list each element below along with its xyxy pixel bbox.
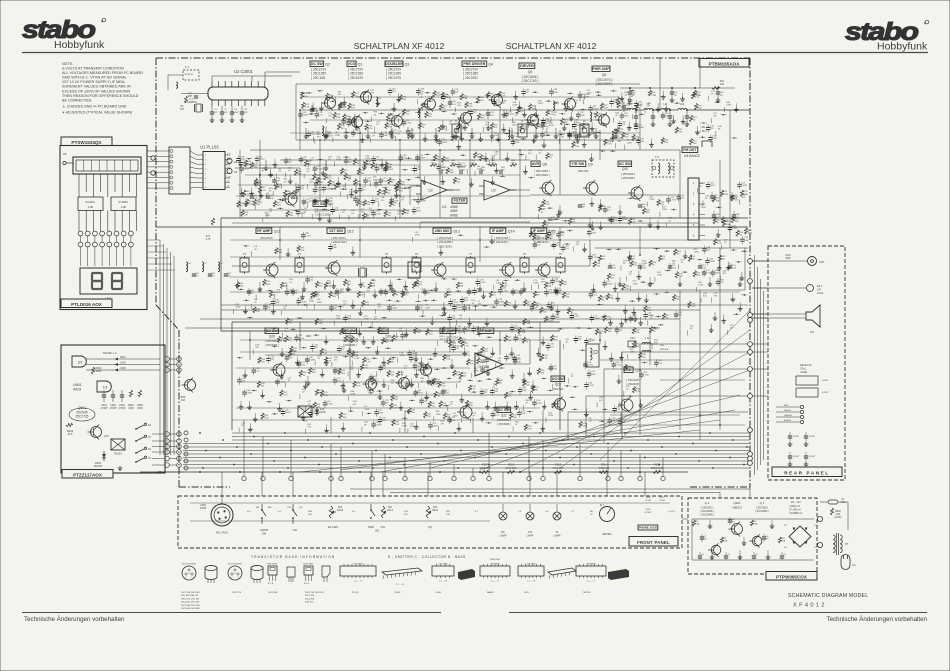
label box PTSW1534QX xyxy=(61,137,112,146)
resistor array R-ARAY right xyxy=(111,197,136,211)
svg-text:1/2W: 1/2W xyxy=(354,358,359,360)
svg-text:1/2W: 1/2W xyxy=(633,283,638,285)
svg-text:22P: 22P xyxy=(457,329,461,331)
psu wires xyxy=(692,519,814,560)
svg-text:0.01: 0.01 xyxy=(466,308,471,310)
svg-text:C203: C203 xyxy=(645,497,651,499)
svg-text:C208: C208 xyxy=(200,505,206,507)
svg-text:47K: 47K xyxy=(520,111,524,113)
svg-text:2SC1359 2SC2002: 2SC1359 2SC2002 xyxy=(181,592,201,594)
svg-text:100P: 100P xyxy=(328,136,333,138)
main schematic border (dash-dot) xyxy=(156,58,750,487)
svg-text:4.7/25: 4.7/25 xyxy=(375,213,382,215)
transformer T2 xyxy=(518,120,527,137)
svg-text:56K: 56K xyxy=(419,284,423,286)
block label 1ST MIX Q12 xyxy=(327,228,354,244)
svg-text:1K: 1K xyxy=(288,340,291,342)
selective-call unit PTZZ outer box xyxy=(61,345,165,473)
L11 L12 filter xyxy=(628,337,669,352)
svg-text:1.8K: 1.8K xyxy=(121,205,127,209)
filler cluster AF mid2 xyxy=(362,341,469,430)
svg-text:10K: 10K xyxy=(361,173,365,175)
svg-text:47A: 47A xyxy=(327,285,331,288)
svg-text:R88: R88 xyxy=(547,283,552,285)
svg-text:1000P: 1000P xyxy=(456,307,463,309)
switch PWR + pot VOL VR1 xyxy=(368,504,394,533)
svg-text:4.7K: 4.7K xyxy=(607,144,612,146)
svg-text:Q13: Q13 xyxy=(453,230,460,234)
svg-text:.02: .02 xyxy=(420,381,424,383)
output filter L7-L10 xyxy=(608,102,750,127)
svg-text:56K: 56K xyxy=(498,383,502,385)
svg-text:L-7: L-7 xyxy=(571,511,575,513)
svg-text:4.7K: 4.7K xyxy=(548,321,553,323)
svg-text:( 2SC1846 ): ( 2SC1846 ) xyxy=(755,509,769,513)
rails y305-328 xyxy=(185,305,748,328)
svg-text:1P: 1P xyxy=(196,276,199,278)
wires main to rear panel xyxy=(752,261,768,396)
bridge rectifier D1-D4 xyxy=(784,525,818,549)
bus left connector circles xyxy=(184,431,188,470)
op-amp U3a xyxy=(416,180,453,200)
svg-text:.02: .02 xyxy=(540,212,544,214)
block label DRIVER Q5 xyxy=(519,63,538,83)
label box PTLD016AOX xyxy=(61,299,112,308)
svg-text:C23: C23 xyxy=(211,273,216,275)
svg-text:1/2W: 1/2W xyxy=(701,207,706,209)
svg-text:4700P: 4700P xyxy=(793,436,799,438)
svg-text:2SC1760 2SC1974: 2SC1760 2SC1974 xyxy=(305,592,325,594)
svg-text:R10: R10 xyxy=(601,256,606,258)
svg-text:220: 220 xyxy=(244,215,248,217)
svg-text:4.7/25: 4.7/25 xyxy=(496,102,503,104)
svg-text:C406: C406 xyxy=(120,367,126,370)
svg-text:4.7K: 4.7K xyxy=(549,114,554,116)
svg-text:1/2W: 1/2W xyxy=(726,105,731,107)
footer rule right xyxy=(509,612,927,614)
psu filler parts xyxy=(692,517,785,546)
svg-text:2P: 2P xyxy=(469,167,472,169)
svg-text:47A: 47A xyxy=(239,285,243,288)
diagonal wires to front panel xyxy=(300,310,750,472)
svg-text:10K: 10K xyxy=(625,288,629,290)
svg-text:1/2W: 1/2W xyxy=(496,381,501,383)
svg-text:10K: 10K xyxy=(446,514,450,516)
svg-text:220: 220 xyxy=(387,215,391,217)
package BA403 DIP xyxy=(480,559,510,583)
svg-text:4.7K: 4.7K xyxy=(368,128,373,130)
T9 transformer xyxy=(652,155,674,177)
svg-text:( 25C1675: ( 25C1675 xyxy=(348,76,363,80)
svg-text:2P: 2P xyxy=(398,134,401,136)
svg-text:100P: 100P xyxy=(326,188,331,190)
svg-text:1/2W: 1/2W xyxy=(494,135,499,137)
svg-text:56K: 56K xyxy=(426,369,430,371)
svg-text:100P: 100P xyxy=(712,138,717,140)
svg-text:470: 470 xyxy=(731,522,735,524)
package 4558 black xyxy=(458,569,475,580)
svg-text:R20: R20 xyxy=(304,93,309,95)
svg-text:CR1: CR1 xyxy=(630,337,635,340)
svg-text:BOTTOM VIEW: BOTTOM VIEW xyxy=(182,564,196,566)
svg-text:Q28: Q28 xyxy=(269,335,275,339)
label box PTPW005COX xyxy=(766,572,817,581)
svg-text:MIC JACK: MIC JACK xyxy=(216,531,228,535)
svg-text:.02: .02 xyxy=(373,114,377,116)
svg-text:4.7/25: 4.7/25 xyxy=(588,385,595,387)
rear panel caps xyxy=(788,432,816,467)
svg-text:47A: 47A xyxy=(452,345,456,348)
svg-text:2P: 2P xyxy=(284,308,287,310)
transistor Q10 xyxy=(628,185,643,201)
transistor Q11 xyxy=(263,262,278,278)
wires to 7-seg display xyxy=(81,247,131,266)
svg-text:4.7K: 4.7K xyxy=(695,97,700,99)
svg-text:6: 6 xyxy=(205,178,207,180)
transistor Q301 psu xyxy=(729,522,743,537)
svg-text:0.01: 0.01 xyxy=(300,188,305,190)
svg-text:Q12: Q12 xyxy=(347,230,354,234)
svg-text:Q3: Q3 xyxy=(405,63,410,67)
svg-text:2SC1675 2SC 945: 2SC1675 2SC 945 xyxy=(181,598,200,600)
svg-text:1000P: 1000P xyxy=(391,308,398,310)
svg-text:1/2W: 1/2W xyxy=(436,414,441,416)
svg-text:10K: 10K xyxy=(549,238,553,240)
svg-text:FM: FM xyxy=(256,507,259,509)
svg-text:470: 470 xyxy=(703,295,707,297)
svg-text:10K: 10K xyxy=(456,374,460,376)
svg-text:0.01: 0.01 xyxy=(640,141,645,143)
svg-text:470: 470 xyxy=(353,404,357,406)
svg-text:.02: .02 xyxy=(495,154,499,156)
svg-text:1: 1 xyxy=(205,155,207,157)
svg-text:MA150 x 3: MA150 x 3 xyxy=(103,351,117,355)
svg-text:56K: 56K xyxy=(289,215,293,217)
svg-text:470: 470 xyxy=(309,182,313,184)
svg-text:CALL: CALL xyxy=(800,367,807,371)
svg-text:Δ VOLTS AT TRANSMIT CONDITION: Δ VOLTS AT TRANSMIT CONDITION xyxy=(62,67,124,71)
svg-text:C42: C42 xyxy=(673,92,678,94)
svg-text:2P: 2P xyxy=(711,93,714,95)
svg-text:1.8A: 1.8A xyxy=(651,94,656,97)
svg-text:1.2A: 1.2A xyxy=(723,540,728,543)
power supply Q2 label xyxy=(700,501,714,517)
pot SQ VR3 xyxy=(426,506,438,529)
svg-text:C129: C129 xyxy=(552,366,558,368)
svg-text:100P: 100P xyxy=(345,122,350,124)
transistor Q15 xyxy=(535,262,550,278)
svg-text:10K: 10K xyxy=(563,284,567,286)
svg-text:L-5: L-5 xyxy=(518,511,522,513)
svg-text:4.7/25: 4.7/25 xyxy=(730,268,737,270)
svg-text:0.01: 0.01 xyxy=(593,294,598,296)
package TA7205 black xyxy=(608,569,629,580)
svg-text:C64: C64 xyxy=(581,204,586,206)
svg-text:D2: D2 xyxy=(784,525,788,527)
svg-text:1000P: 1000P xyxy=(592,108,599,110)
svg-text:U3: U3 xyxy=(442,205,446,209)
svg-text:C610: C610 xyxy=(641,204,647,206)
svg-text:R104: R104 xyxy=(327,358,333,360)
svg-text:56K: 56K xyxy=(375,383,379,385)
svg-text:100P: 100P xyxy=(515,142,520,144)
svg-text:E: E xyxy=(231,577,233,579)
svg-text:220: 220 xyxy=(347,178,351,180)
svg-text:1/2W: 1/2W xyxy=(257,202,262,204)
connector circles display rows xyxy=(78,231,133,247)
svg-text:2P: 2P xyxy=(705,198,708,200)
svg-text:1 2 — #8: 1 2 — #8 xyxy=(439,581,448,583)
svg-text:4700P: 4700P xyxy=(200,508,207,510)
svg-text:22P: 22P xyxy=(622,124,626,126)
svg-text:4.7/25: 4.7/25 xyxy=(587,365,594,367)
block label FM DET U4 BA403 xyxy=(682,147,700,158)
filler cluster TX chain upper xyxy=(298,88,643,144)
svg-text:56K: 56K xyxy=(293,351,297,353)
svg-text:4.7/25: 4.7/25 xyxy=(508,114,515,116)
svg-text:4.7K: 4.7K xyxy=(399,191,404,193)
svg-text:1/2: 1/2 xyxy=(491,189,496,193)
svg-text:L-6: L-6 xyxy=(545,511,549,513)
svg-text:R127: R127 xyxy=(534,387,540,389)
svg-text:56K: 56K xyxy=(401,184,405,186)
svg-text:56K: 56K xyxy=(434,384,438,386)
svg-text:DRIVER: DRIVER xyxy=(520,64,534,68)
svg-text:R114: R114 xyxy=(601,463,608,467)
svg-text:DC SW: DC SW xyxy=(619,162,632,166)
svg-text:100P: 100P xyxy=(580,115,585,117)
left vertical wire bundle xyxy=(160,240,174,455)
svg-text:470: 470 xyxy=(713,116,717,118)
block label DC SW Q23 xyxy=(551,376,565,391)
svg-text:220: 220 xyxy=(261,361,265,363)
svg-text:47K: 47K xyxy=(390,118,394,120)
svg-text:1000P: 1000P xyxy=(246,393,253,395)
switch CAL xyxy=(287,504,303,532)
block label SD Q34 xyxy=(624,367,642,386)
svg-text:22P: 22P xyxy=(681,197,685,199)
svg-text:2P: 2P xyxy=(472,416,475,418)
transformer T3 xyxy=(580,120,589,137)
svg-text:E B: E B xyxy=(412,269,416,273)
connector circles H8 H9 xyxy=(227,158,238,174)
svg-text:0.01: 0.01 xyxy=(464,300,469,302)
svg-text:C7: C7 xyxy=(756,554,759,556)
svg-text:R16: R16 xyxy=(661,256,666,258)
svg-text:2ND MIX: 2ND MIX xyxy=(435,229,450,233)
svg-text:47K: 47K xyxy=(480,100,484,102)
transistor Q601 xyxy=(88,425,102,440)
package 2SC1760 side view xyxy=(303,564,313,586)
transistor Q1 psu xyxy=(749,534,762,548)
svg-text:R43: R43 xyxy=(571,219,576,221)
svg-text:1/2W: 1/2W xyxy=(336,159,341,161)
svg-text:4.7K: 4.7K xyxy=(366,362,371,364)
filler cluster AF xyxy=(237,332,560,434)
svg-text:.02: .02 xyxy=(287,380,291,382)
filler cluster TX band2 xyxy=(314,94,639,144)
svg-text:2P: 2P xyxy=(561,136,564,138)
svg-text:.02: .02 xyxy=(471,293,475,295)
svg-text:4700P: 4700P xyxy=(119,407,126,410)
svg-text:470: 470 xyxy=(255,347,259,349)
svg-text:220: 220 xyxy=(319,286,323,288)
transformer T1 xyxy=(452,120,461,137)
display unit PTSW1534 outer box xyxy=(60,146,147,310)
svg-text:WA150: WA150 xyxy=(318,411,326,414)
svg-text:D1 ~ D4: D1 ~ D4 xyxy=(791,500,801,504)
svg-text:1000P: 1000P xyxy=(387,169,394,171)
svg-text:4.7K: 4.7K xyxy=(528,429,533,431)
svg-text:Q22: Q22 xyxy=(501,414,507,418)
svg-text:0.01: 0.01 xyxy=(560,234,565,236)
svg-text:.02: .02 xyxy=(317,358,321,360)
filler cluster PLL dense2 xyxy=(239,160,418,223)
svg-text:.02: .02 xyxy=(629,274,633,276)
svg-text:R115: R115 xyxy=(555,463,562,467)
filler cluster driver band3 xyxy=(437,138,645,162)
svg-text:100P: 100P xyxy=(347,162,352,164)
svg-text:220: 220 xyxy=(494,127,498,129)
svg-text:100P: 100P xyxy=(785,258,791,260)
svg-text:4558: 4558 xyxy=(436,592,442,594)
svg-text:R ARAY: R ARAY xyxy=(86,200,96,204)
svg-text:R10: R10 xyxy=(781,538,786,540)
svg-text:R112: R112 xyxy=(721,256,727,258)
svg-text:X F 4 0 1 2: X F 4 0 1 2 xyxy=(793,603,825,609)
TX chain main wire xyxy=(300,109,630,111)
svg-text:4.7K: 4.7K xyxy=(283,395,288,397)
svg-text:1K: 1K xyxy=(639,108,642,110)
svg-text:Hobbyfunk: Hobbyfunk xyxy=(54,39,105,51)
power supply Q301 label xyxy=(732,501,742,510)
svg-text:M 1: M 1 xyxy=(600,504,605,507)
block label AF AMP Q21 xyxy=(440,328,464,344)
svg-text:2: 2 xyxy=(693,193,695,196)
svg-text:R112: R112 xyxy=(508,463,515,467)
svg-text:Q10: Q10 xyxy=(622,167,628,171)
svg-text:100P: 100P xyxy=(591,374,596,376)
svg-text:0.01: 0.01 xyxy=(489,115,494,117)
main rail y227 xyxy=(156,226,748,228)
svg-text:470: 470 xyxy=(377,307,381,309)
svg-text:470: 470 xyxy=(535,136,539,138)
svg-text:1000P: 1000P xyxy=(411,353,418,355)
svg-text:4.7/25: 4.7/25 xyxy=(616,365,623,367)
svg-text:47A: 47A xyxy=(381,331,385,334)
svg-text:.02: .02 xyxy=(458,381,462,383)
svg-text:0.01: 0.01 xyxy=(417,169,422,171)
transistor Q20 xyxy=(396,376,410,391)
svg-text:10K: 10K xyxy=(679,131,683,133)
svg-text:1/3: 1/3 xyxy=(103,386,108,390)
switch AM/FM SW xyxy=(256,504,271,536)
package TA7205 DIP xyxy=(576,564,606,583)
svg-text:47A: 47A xyxy=(357,182,361,185)
svg-text:220: 220 xyxy=(427,416,431,418)
transistor Q7 xyxy=(282,191,297,207)
lamp TX xyxy=(553,504,561,538)
left bus entry wires xyxy=(156,471,183,473)
svg-text:220: 220 xyxy=(417,332,421,334)
svg-text:( 152 ): ( 152 ) xyxy=(700,130,707,133)
svg-text:4.7K: 4.7K xyxy=(393,408,398,410)
svg-text:4.7/25: 4.7/25 xyxy=(732,228,739,230)
svg-text:47K: 47K xyxy=(721,259,725,261)
svg-text:47A: 47A xyxy=(336,116,340,119)
svg-text:4700P: 4700P xyxy=(822,392,829,394)
svg-text:4.7K: 4.7K xyxy=(543,358,548,360)
svg-text:SIDE VIEW: SIDE VIEW xyxy=(490,559,500,561)
svg-text:470: 470 xyxy=(328,116,332,118)
svg-text:2SB 313: 2SB 313 xyxy=(305,602,314,604)
TX chain ground row xyxy=(304,128,619,139)
row C bias parts xyxy=(236,282,563,298)
svg-text:C14: C14 xyxy=(641,265,646,267)
svg-text:100P: 100P xyxy=(404,292,409,294)
svg-text:C2: C2 xyxy=(704,536,708,538)
svg-text:220: 220 xyxy=(324,353,328,355)
svg-text:22P: 22P xyxy=(710,128,714,130)
staircase wires right side xyxy=(568,344,748,443)
svg-text:4.7K: 4.7K xyxy=(305,107,310,109)
svg-text:1K: 1K xyxy=(677,253,680,255)
squelch wires xyxy=(595,248,748,290)
svg-text:R40: R40 xyxy=(541,206,546,208)
svg-text:C3001: C3001 xyxy=(394,592,401,594)
transistor TX chain at 570 xyxy=(562,97,576,112)
block label DC SW Q19 xyxy=(343,328,357,347)
block label IF AMP Q14 xyxy=(490,228,515,244)
svg-text:10K: 10K xyxy=(660,204,664,206)
svg-text:1K: 1K xyxy=(395,339,398,341)
block label AVR Q8 xyxy=(531,161,550,177)
svg-text:R51: R51 xyxy=(651,92,656,94)
block label RF AMP Q11 xyxy=(256,228,280,240)
svg-text:SUREMENT VALUES OBTAINED AR: SUREMENT VALUES OBTAINED ARE IN xyxy=(62,85,131,89)
svg-text:1/2W: 1/2W xyxy=(364,409,369,411)
phone jack xyxy=(638,497,676,530)
svg-text:3.2K: 3.2K xyxy=(571,222,576,224)
svg-text:0.01: 0.01 xyxy=(309,280,314,282)
svg-text:4: 4 xyxy=(205,169,207,171)
pot RF GAIN VR2 xyxy=(328,506,344,529)
svg-text:2SA733: 2SA733 xyxy=(552,387,563,391)
svg-text:Q20: Q20 xyxy=(385,335,391,339)
svg-text:4.7K: 4.7K xyxy=(717,243,722,245)
block label DC SW Q2 xyxy=(310,61,330,80)
svg-text:1000P: 1000P xyxy=(382,181,389,183)
block label IF AMP Q15 xyxy=(531,228,556,244)
transistor Q34 xyxy=(618,397,633,413)
svg-text:100P: 100P xyxy=(416,210,421,212)
svg-text:.02: .02 xyxy=(471,303,475,305)
svg-text:1.2A: 1.2A xyxy=(695,523,700,526)
svg-text:.02: .02 xyxy=(624,95,628,97)
svg-text:22P: 22P xyxy=(451,318,455,320)
svg-text:2P: 2P xyxy=(699,186,702,188)
svg-text:C9: C9 xyxy=(784,554,787,556)
PLL support parts xyxy=(242,186,299,200)
svg-text:100P: 100P xyxy=(275,302,280,304)
svg-text:4.7/25: 4.7/25 xyxy=(289,292,296,294)
svg-text:∗ ADJUSTED (TYPICAL VALUE SHO: ∗ ADJUSTED (TYPICAL VALUE SHOWN) xyxy=(62,111,132,115)
filler cluster right mid xyxy=(563,336,663,429)
bus junction dots xyxy=(199,432,748,469)
svg-text:1/2W: 1/2W xyxy=(400,355,405,357)
svg-text:0.01: 0.01 xyxy=(616,409,621,411)
svg-text:10K: 10K xyxy=(532,108,536,110)
